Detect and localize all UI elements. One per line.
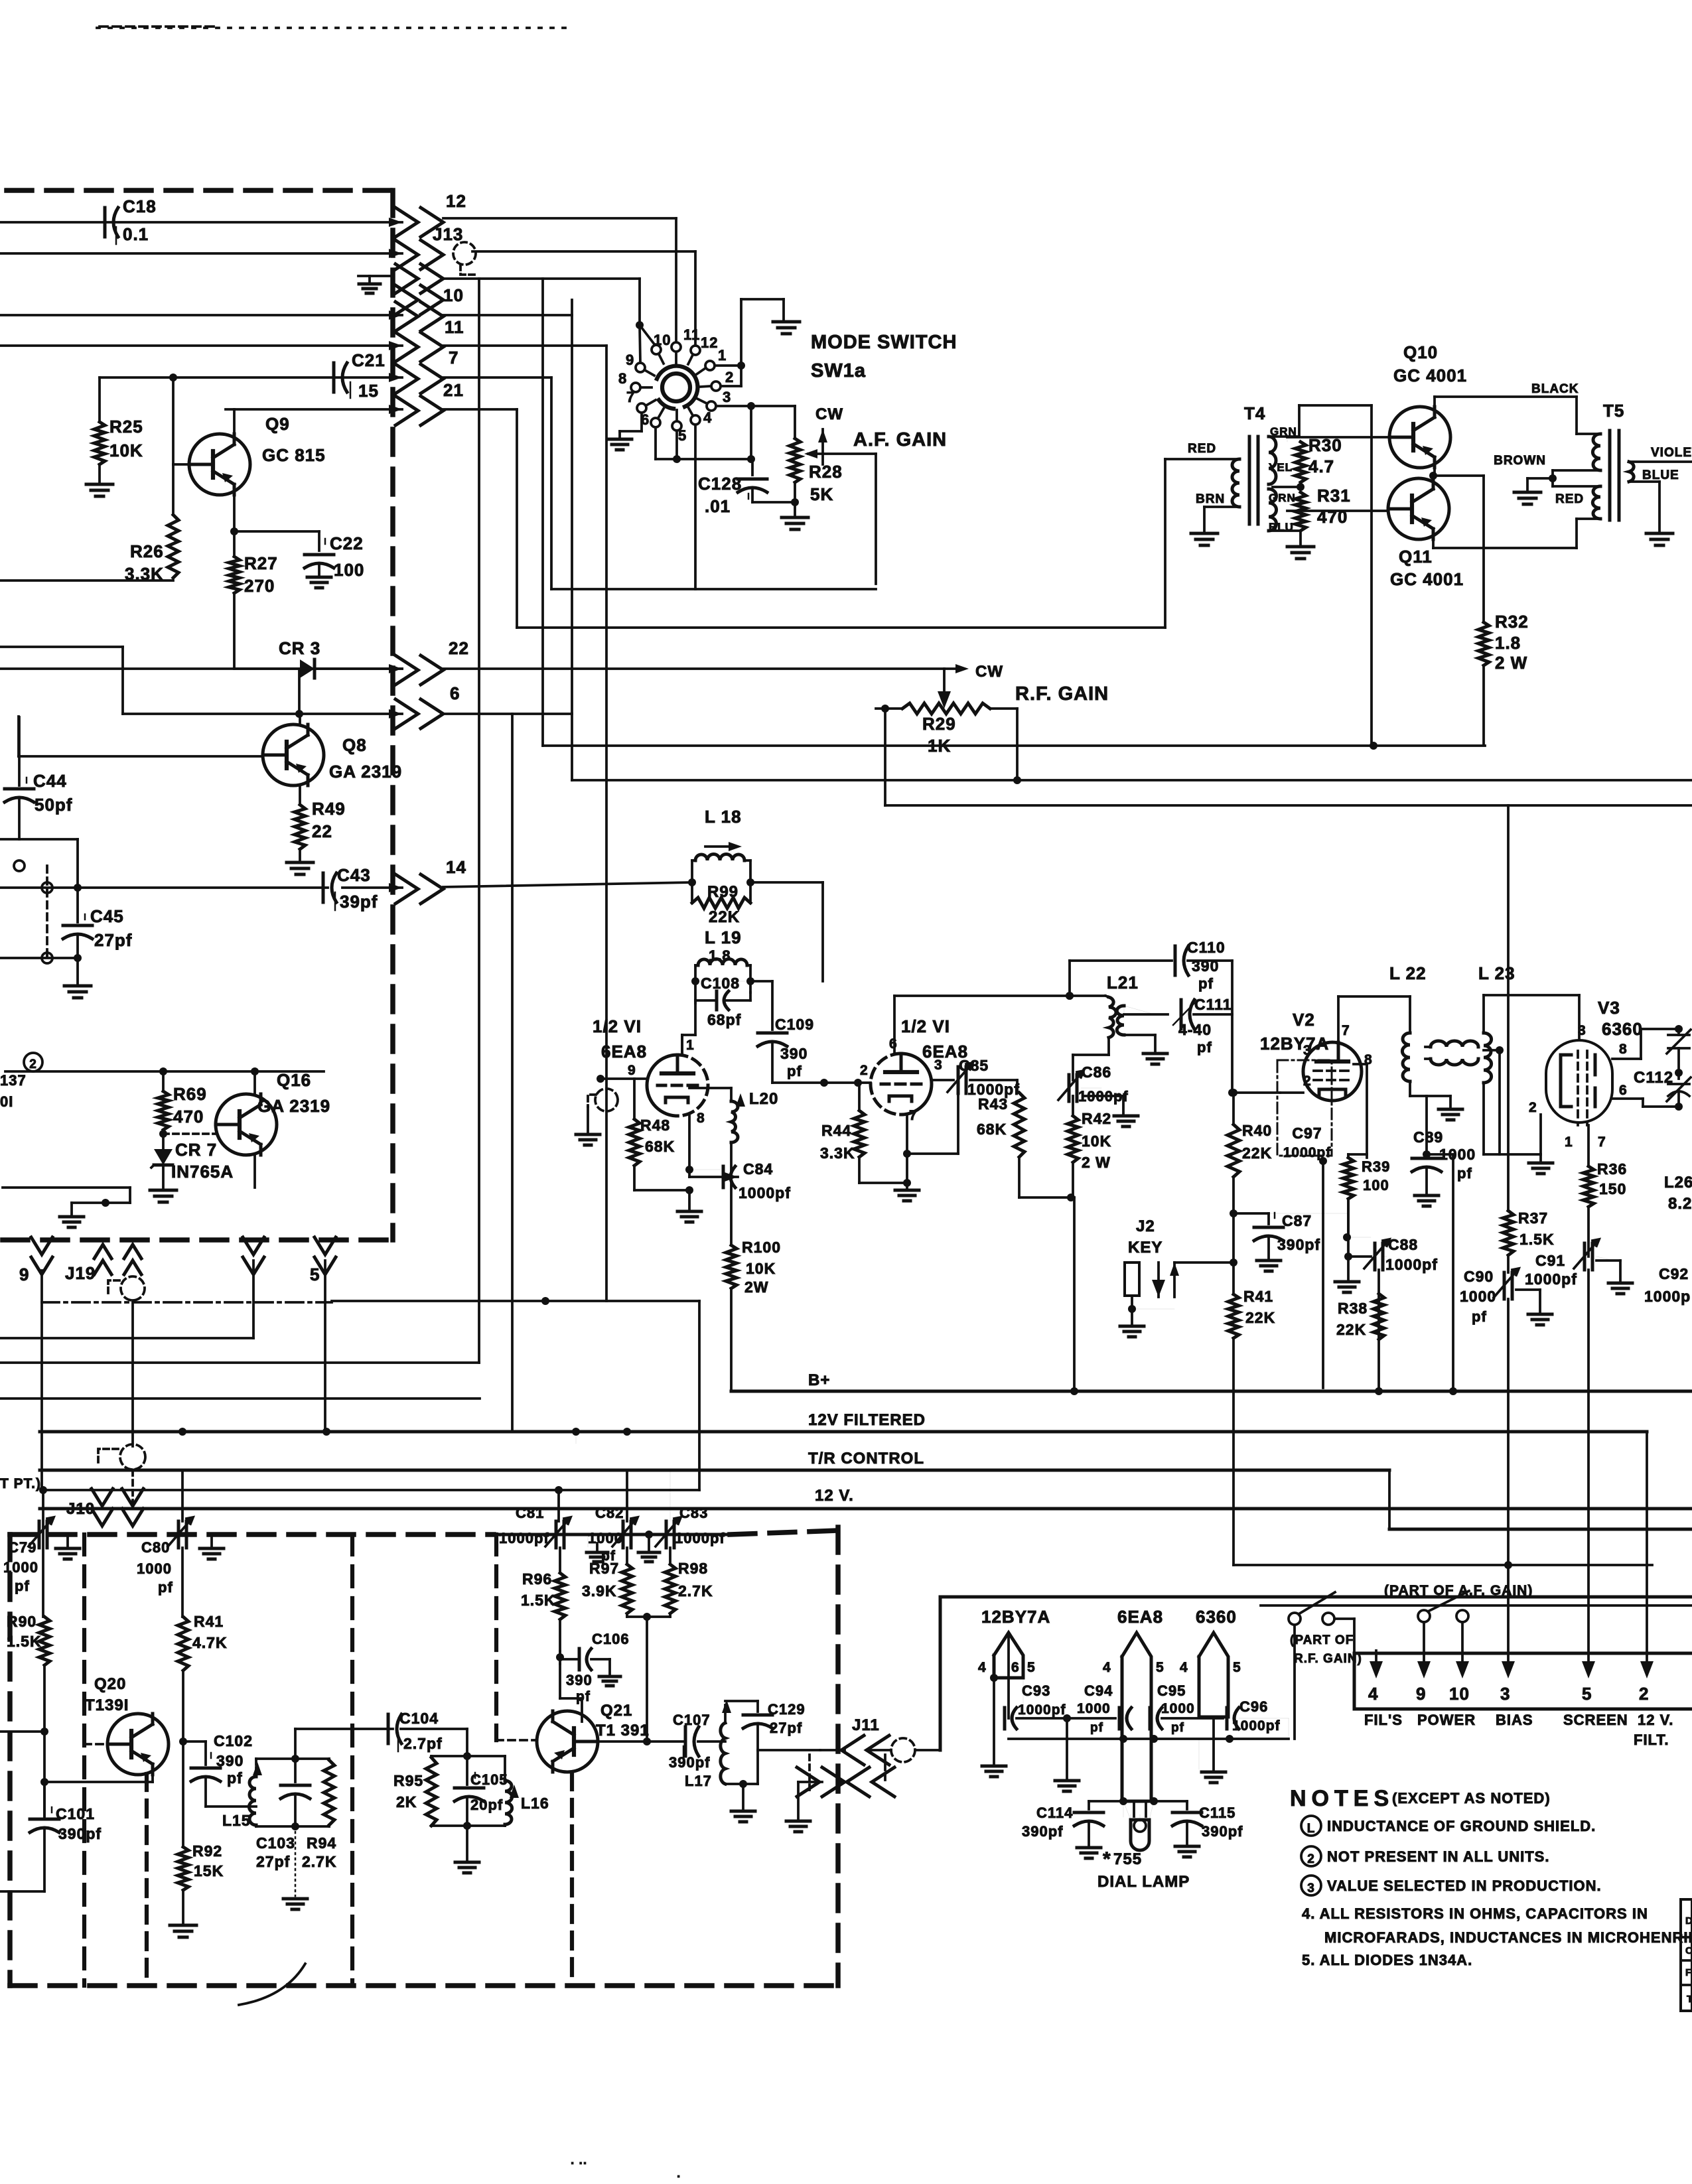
- svg-text:4.7: 4.7: [1308, 456, 1334, 476]
- transformer T5 label: [1603, 401, 1624, 421]
- inductor L18: [692, 854, 750, 861]
- label C109: [775, 1016, 814, 1079]
- svg-text:BLACK: BLACK: [1531, 382, 1579, 396]
- pin7 V1b: [909, 1108, 918, 1123]
- terminal arrow 3: [1500, 1661, 1515, 1704]
- svg-text:4: 4: [1103, 1660, 1111, 1675]
- wire J2 sleeve: [1120, 1296, 1174, 1337]
- parallel L18 R99 box: [692, 860, 750, 903]
- junction contact3 node: [747, 402, 755, 410]
- svg-text:C89: C89: [1413, 1128, 1443, 1146]
- label C89: [1413, 1128, 1443, 1146]
- ground under R49: [287, 849, 313, 874]
- svg-text:21: 21: [443, 380, 464, 400]
- svg-text:4: 4: [703, 409, 712, 426]
- stray curve bottom left: [239, 1964, 305, 2005]
- wire BRN to ground: [1203, 507, 1206, 531]
- svg-text:J19: J19: [65, 1263, 96, 1283]
- label J19: [65, 1263, 96, 1283]
- capacitor C83 feedthrough: [656, 1505, 725, 1548]
- svg-text:VIOLET: VIOLET: [1651, 446, 1692, 460]
- wire 1961 cont: [545, 1301, 699, 1490]
- wire R25 drop: [98, 377, 101, 422]
- wire to V2 grid: [1232, 1091, 1280, 1094]
- svg-text:R100: R100: [742, 1239, 781, 1256]
- capacitor C18: [105, 196, 157, 244]
- bottom box dashed bottom border: [10, 1983, 838, 1988]
- transformer T5 primary lower: [1553, 486, 1600, 519]
- note 3: [1301, 1876, 1602, 1895]
- wire C97 drop: [1322, 1161, 1324, 1388]
- mode switch contacts: [631, 342, 721, 431]
- capacitor C95: [1150, 1682, 1195, 1735]
- svg-text:2W: 2W: [744, 1278, 769, 1296]
- wire R39 bottom: [1347, 1199, 1350, 1237]
- wire VIOLET: [1629, 460, 1692, 463]
- svg-text:R92: R92: [192, 1842, 222, 1860]
- wire BLUE: [1629, 482, 1659, 531]
- wire pin8 down: [685, 1116, 693, 1174]
- resistor R25: [94, 417, 143, 464]
- svg-text:YEL: YEL: [1269, 461, 1293, 474]
- connector arrow J10a: [92, 1489, 113, 1526]
- dashed emitter Q20: [145, 1774, 149, 1986]
- wire row 2108: [0, 1397, 480, 1400]
- label part of AF gain: [1384, 1583, 1533, 1598]
- resistor R41key: [1228, 1263, 1275, 1338]
- wire C109 feed: [772, 981, 773, 1030]
- svg-text:390: 390: [780, 1045, 808, 1062]
- wire L23 top: [1484, 995, 1579, 1040]
- svg-text:C84: C84: [743, 1160, 773, 1178]
- diode CR7 zener: [151, 1149, 173, 1168]
- wire C110 row: [1070, 961, 1172, 996]
- label BLUE: [1642, 468, 1679, 482]
- wire R96 to Q21: [560, 1664, 582, 1712]
- label BLACK: [1531, 382, 1579, 396]
- wire row 6: [443, 713, 572, 715]
- svg-text:6EA8: 6EA8: [601, 1042, 647, 1061]
- wire tank gnd: [283, 1826, 307, 1909]
- svg-text:68pf: 68pf: [707, 1011, 741, 1028]
- svg-text:5: 5: [1027, 1660, 1036, 1675]
- wire row 21: [226, 408, 517, 411]
- svg-text:R27: R27: [244, 553, 278, 573]
- capacitor C79 feedthrough: [3, 1517, 54, 1594]
- wire 12 to contact 11: [443, 218, 676, 342]
- svg-text:390pf: 390pf: [1022, 1823, 1063, 1840]
- capacitor C109: [750, 981, 787, 1046]
- wire R43 bottom: [1019, 1157, 1074, 1197]
- svg-text:VALUE SELECTED IN PRODUCTIO: VALUE SELECTED IN PRODUCTION.: [1327, 1877, 1602, 1894]
- tank2 bottom: [431, 1799, 505, 1830]
- svg-text:C45: C45: [90, 906, 124, 926]
- svg-text:T4: T4: [1244, 403, 1265, 423]
- svg-text:pf: pf: [787, 1063, 802, 1079]
- label SCREEN: [1563, 1712, 1628, 1728]
- capacitor C111: [1173, 996, 1232, 1056]
- wire Q9 emitter: [233, 495, 236, 531]
- junction C45 top: [74, 884, 82, 892]
- junction L18 right: [746, 878, 754, 886]
- wire pin3 C85: [932, 1079, 953, 1081]
- connector J13 dashed circle: [453, 242, 476, 275]
- svg-text:T1 391: T1 391: [596, 1722, 650, 1740]
- junction Q9 emitter node: [230, 527, 238, 535]
- label L22: [1389, 963, 1427, 983]
- label 10: [443, 285, 464, 305]
- label 6EA8 sock: [1117, 1607, 1163, 1627]
- pin3 V3: [1578, 1023, 1586, 1038]
- tube socket 6360: [1199, 1633, 1228, 1717]
- inductor L23: [1484, 995, 1492, 1083]
- svg-text:R90: R90: [7, 1613, 36, 1630]
- svg-text:3: 3: [1303, 1043, 1312, 1058]
- resistor R31: [1295, 486, 1351, 531]
- label R94: [302, 1834, 337, 1870]
- label BIAS: [1496, 1712, 1533, 1728]
- wire vertical from 7-row: [550, 377, 553, 589]
- svg-text:3.9K: 3.9K: [582, 1582, 617, 1600]
- label Q20: [85, 1675, 129, 1714]
- transformer T4 secondary: [1269, 437, 1277, 531]
- resistor R42: [1068, 1096, 1111, 1171]
- dashed link J11: [884, 1755, 886, 1781]
- svg-text:1000pf: 1000pf: [675, 1530, 725, 1546]
- wire pin8 V2: [1354, 1064, 1367, 1158]
- tank3 bottom: [725, 1780, 758, 1822]
- wire L18 to right: [750, 882, 823, 981]
- switch contact open a: [14, 860, 25, 871]
- svg-text:10: 10: [443, 285, 464, 305]
- wire c93 gnd: [1055, 1718, 1079, 1791]
- wire R37 bottom: [1507, 1255, 1510, 1272]
- wire Q8 base: [19, 717, 263, 756]
- svg-text:L21: L21: [1107, 973, 1139, 992]
- svg-text:Q11: Q11: [1399, 547, 1433, 567]
- wire lamp leads: [1123, 1801, 1154, 1820]
- svg-text:CR 3: CR 3: [279, 638, 320, 658]
- svg-text:6360: 6360: [1196, 1607, 1237, 1627]
- junction sock lower a: [1119, 1735, 1127, 1743]
- wire sock1 pin5: [1022, 1678, 1024, 1718]
- svg-text:R99: R99: [707, 883, 739, 901]
- ground C114: [1077, 1823, 1101, 1858]
- svg-text:L 23: L 23: [1478, 963, 1516, 983]
- resistor R41b: [178, 1613, 228, 1671]
- svg-text:C86: C86: [1082, 1063, 1111, 1081]
- wire C43 to arrow: [342, 886, 402, 889]
- label BRN T4: [1196, 492, 1225, 506]
- svg-text:1: 1: [1565, 1134, 1573, 1150]
- wire pin9: [597, 1075, 647, 1083]
- terminal box: [940, 1597, 1692, 1750]
- svg-text:4: 4: [1180, 1660, 1188, 1675]
- svg-text:R28: R28: [809, 462, 843, 482]
- top margin dotted line: [97, 27, 571, 28]
- capacitor C93: [1005, 1682, 1066, 1729]
- svg-text:10: 10: [654, 332, 671, 348]
- svg-text:10: 10: [1449, 1684, 1470, 1704]
- ground under C87: [1257, 1238, 1281, 1271]
- resistor R95: [393, 1756, 437, 1826]
- wire C109 down: [772, 1044, 871, 1083]
- svg-text:pf: pf: [1472, 1308, 1487, 1325]
- wire C88 row: [1234, 1213, 1347, 1214]
- label AF GAIN: [853, 429, 947, 450]
- svg-text:5K: 5K: [810, 484, 833, 504]
- svg-text:C129: C129: [768, 1701, 806, 1718]
- wire C86 gnd: [1081, 1088, 1138, 1126]
- wire row 7 with C21: [100, 376, 551, 379]
- ground C115: [1175, 1823, 1199, 1857]
- capacitor C45: [63, 888, 132, 950]
- wire TR step: [1389, 1470, 1692, 1529]
- svg-text:5: 5: [1233, 1660, 1241, 1675]
- svg-text:1000pf: 1000pf: [1525, 1270, 1577, 1288]
- svg-text:C88: C88: [1388, 1236, 1418, 1253]
- svg-text:(PART OF: (PART OF: [1290, 1633, 1354, 1647]
- capacitor C94: [1077, 1682, 1131, 1735]
- junction C104 node: [463, 1752, 471, 1760]
- wire row 22: [0, 667, 944, 670]
- junction contact1: [737, 362, 745, 370]
- svg-text:SCREEN: SCREEN: [1563, 1712, 1628, 1728]
- switch RF gain: [1289, 1592, 1335, 1625]
- svg-text:39pf: 39pf: [340, 892, 378, 912]
- wire R31 bottom gnd: [1269, 531, 1301, 544]
- svg-text:12 V.: 12 V.: [1638, 1712, 1673, 1728]
- svg-text:GRN: GRN: [1269, 492, 1296, 504]
- ground under R28: [782, 502, 808, 529]
- svg-text:12: 12: [446, 191, 466, 211]
- svg-text:2: 2: [29, 1058, 37, 1071]
- wire C80 drop: [181, 1470, 184, 1617]
- label C103: [256, 1834, 295, 1870]
- wire Q16 collector: [253, 1071, 256, 1094]
- svg-text:1.5K: 1.5K: [521, 1592, 556, 1609]
- wire row 2420: [1261, 1604, 1692, 1607]
- svg-text:.01: .01: [705, 496, 731, 516]
- wire crystal row1: [0, 886, 328, 889]
- wire R29 right: [990, 709, 1017, 780]
- pin2 V3: [1529, 1100, 1537, 1115]
- label C137 partial: [0, 1072, 27, 1110]
- svg-text:3: 3: [723, 389, 731, 405]
- ground near J19: [60, 1217, 84, 1227]
- mode switch rotor: [657, 366, 697, 409]
- wire c93-c94: [1017, 1717, 1115, 1720]
- svg-text:C107: C107: [673, 1712, 711, 1728]
- svg-text:IN765A: IN765A: [171, 1162, 234, 1182]
- wire C91 gnd: [1596, 1257, 1632, 1294]
- wire Q9 collector: [233, 409, 236, 434]
- capacitor C114: [1022, 1801, 1123, 1840]
- capacitor C96: [1227, 1698, 1281, 1734]
- wire sock lower gnd: [1199, 1717, 1226, 1783]
- transformer T5 core: [1610, 431, 1619, 520]
- connector arrow 10: [389, 302, 443, 331]
- wire Q16 top rail: [5, 1070, 324, 1073]
- wire C79 drop: [42, 1492, 44, 1617]
- svg-text:11: 11: [683, 326, 700, 343]
- bottom box dashed left border: [7, 1535, 13, 1986]
- wire row 2054: [0, 1361, 479, 1364]
- svg-text:8: 8: [697, 1111, 705, 1126]
- wire R90 bottom: [43, 1665, 46, 1818]
- wire row 2017: [0, 1337, 253, 1339]
- wire J19 drop: [131, 1300, 134, 1446]
- wire C90 gnd: [1516, 1290, 1552, 1325]
- note 5: [1302, 1952, 1472, 1968]
- label TEST PT: [0, 1476, 41, 1491]
- dial lamp: [1131, 1801, 1149, 1850]
- svg-text:C21: C21: [352, 350, 386, 370]
- wire contact5-6 bus: [656, 458, 752, 460]
- svg-text:Q8: Q8: [342, 735, 367, 755]
- svg-text:10K: 10K: [746, 1260, 776, 1277]
- capacitor C87: [1254, 1212, 1320, 1253]
- wire Q8 collector row: [123, 711, 125, 713]
- wire R32 feed: [1484, 665, 1486, 746]
- note 2: [1301, 1846, 1549, 1866]
- wire row6 header: [123, 713, 402, 715]
- capacitor C21: [334, 350, 386, 401]
- dashed switch link: [46, 866, 48, 958]
- wire R40 bottom: [1232, 1177, 1235, 1211]
- svg-text:R31: R31: [1317, 486, 1351, 506]
- wire R69 bottom: [162, 1130, 165, 1149]
- transformer T5 secondary: [1629, 462, 1634, 482]
- svg-text:. ..: . ..: [571, 2153, 587, 2167]
- wire switch box bottom: [551, 588, 876, 590]
- svg-text:C104: C104: [399, 1710, 439, 1727]
- wire 12VF drop: [1646, 1432, 1648, 1665]
- label J2 KEY: [1128, 1217, 1163, 1257]
- ground C84 node: [677, 1190, 701, 1222]
- wire contact 3 row: [716, 405, 795, 407]
- wire Q8 emitter: [299, 785, 301, 805]
- svg-text:pf: pf: [15, 1578, 30, 1594]
- wire pin7 drop: [1587, 1125, 1590, 1166]
- pins 12BY7A: [978, 1660, 1036, 1675]
- svg-text:8.2: 8.2: [1668, 1195, 1692, 1213]
- pin6 V3: [1619, 1083, 1628, 1098]
- potentiometer R29: [902, 703, 990, 756]
- resistor R36: [1583, 1160, 1627, 1207]
- svg-text:4: 4: [1368, 1684, 1378, 1704]
- svg-text:15: 15: [358, 381, 379, 401]
- svg-text:1/2 VI: 1/2 VI: [593, 1016, 642, 1036]
- wire T5 center tap: [1527, 470, 1557, 490]
- svg-text:R38: R38: [1338, 1300, 1368, 1317]
- connector arrow 11: [389, 332, 443, 362]
- junction tank top: [291, 1755, 299, 1763]
- wire osc out: [758, 1749, 845, 1751]
- svg-text:1000: 1000: [588, 1530, 623, 1546]
- junction C83 gnd: [638, 1531, 660, 1562]
- svg-text:1: 1: [686, 1038, 695, 1053]
- wire tank top: [256, 1759, 329, 1782]
- svg-text:GC 815: GC 815: [262, 445, 326, 465]
- label 14: [446, 857, 466, 877]
- inductor L22 coupling: [1425, 1041, 1478, 1065]
- bus B+: [731, 1371, 1692, 1391]
- label part of RF gain: [1290, 1633, 1362, 1666]
- svg-text:3.3K: 3.3K: [820, 1144, 855, 1162]
- svg-text:INDUCTANCE OF GROUND SHIELD: INDUCTANCE OF GROUND SHIELD.: [1327, 1818, 1596, 1834]
- svg-text:14: 14: [446, 857, 466, 877]
- pins 6360: [1180, 1660, 1241, 1675]
- label J11: [852, 1716, 880, 1734]
- svg-text:C90: C90: [1464, 1268, 1494, 1285]
- resistor R44: [820, 1111, 865, 1162]
- capacitor C80 feedthrough: [137, 1517, 193, 1596]
- junction Q21 out: [643, 1738, 651, 1745]
- capacitor C82 feedthrough: [588, 1505, 638, 1564]
- capacitor C43: [323, 865, 378, 912]
- resistor R32: [1478, 612, 1529, 673]
- svg-text:J13: J13: [433, 224, 463, 244]
- svg-text:7: 7: [449, 348, 458, 368]
- svg-text:22K: 22K: [709, 908, 740, 926]
- junction 12VF b: [322, 1428, 330, 1436]
- svg-text:5. ALL DIODES 1N34A.: 5. ALL DIODES 1N34A.: [1302, 1952, 1472, 1968]
- wire Q21 base dash: [496, 1739, 537, 1741]
- svg-text:R96: R96: [522, 1570, 552, 1588]
- svg-text:R.F. GAIN: R.F. GAIN: [1015, 683, 1109, 705]
- bottom box dashed right border: [835, 1527, 841, 1986]
- mode switch contact spokes: [641, 352, 711, 421]
- wire AF wiper: [804, 449, 876, 458]
- svg-text:J11: J11: [852, 1716, 880, 1734]
- ground at mode switch top: [773, 322, 800, 334]
- svg-text:MICROFARADS, INDUCTANCES IN MI: MICROFARADS, INDUCTANCES IN MICROHENRIES…: [1324, 1929, 1692, 1946]
- transformer T4 primary: [1165, 459, 1239, 507]
- wire pin7 down: [903, 1093, 958, 1158]
- capacitor C105: [455, 1756, 508, 1813]
- connector arrow row3: [395, 264, 443, 293]
- wire long vertical A: [478, 279, 480, 1363]
- svg-text:NOTES: NOTES: [1290, 1786, 1394, 1811]
- big shield box dashed right border: [390, 190, 395, 1240]
- connector arrow 14: [389, 874, 443, 904]
- svg-text:270: 270: [244, 576, 275, 596]
- tank bottom: [256, 1822, 329, 1830]
- capacitor C103: [281, 1785, 310, 1826]
- wire v1b plate row: [894, 994, 1105, 997]
- wire Q21 collector top: [560, 1698, 582, 1722]
- resistor R27: [229, 531, 278, 596]
- ground under R31: [1287, 547, 1314, 559]
- svg-text:BROWN: BROWN: [1494, 454, 1546, 468]
- transistor Q8: [263, 724, 324, 785]
- junction sock lower c: [1226, 1735, 1234, 1743]
- svg-text:4.7K: 4.7K: [192, 1634, 228, 1651]
- capacitor C22: [305, 533, 364, 580]
- switch AF gain: [1418, 1591, 1469, 1622]
- svg-text:R41: R41: [1243, 1288, 1273, 1305]
- wire 9 drop: [40, 1270, 43, 1492]
- inner box dashed right: [350, 1535, 354, 1986]
- wire contact 5 drop: [675, 431, 678, 459]
- wire C87 branch: [1234, 1213, 1269, 1224]
- svg-text:2: 2: [1303, 1073, 1312, 1089]
- svg-text:T139I: T139I: [85, 1696, 129, 1714]
- junction Q10 Q11 emitters: [1429, 468, 1484, 480]
- svg-text:390: 390: [216, 1752, 244, 1769]
- wire crystal row2: [0, 957, 78, 959]
